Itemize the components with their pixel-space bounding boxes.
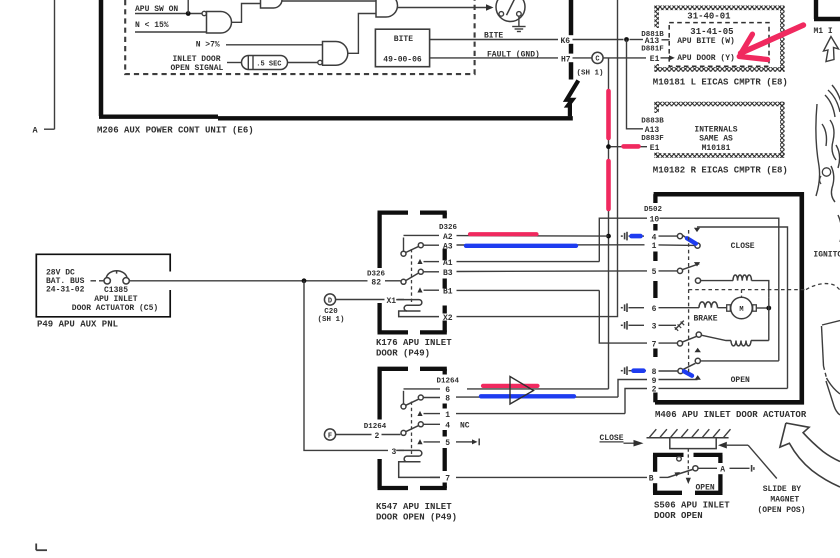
off-sheet connector C (SH 1) xyxy=(577,52,604,77)
svg-text:M1 I: M1 I xyxy=(814,27,833,36)
svg-text:3: 3 xyxy=(652,323,657,332)
box M1 corner top right xyxy=(814,0,840,36)
svg-text:NC: NC xyxy=(460,422,470,431)
K176 contact pole A2 xyxy=(401,238,419,257)
and-gate G1B (clipped at top) xyxy=(261,0,283,8)
highlight red on K547 pin 6 wire xyxy=(483,384,538,388)
K547 pin 7 wire to S506 B xyxy=(430,475,647,484)
junction dot main feed xyxy=(302,278,307,283)
svg-text:C1385: C1385 xyxy=(104,286,128,295)
label K176 APU INLET DOOR (P49) xyxy=(376,338,452,358)
box M406 APU INLET DOOR ACTUATOR xyxy=(654,192,804,405)
M406 switch mechanical link dashed xyxy=(688,230,690,375)
circuit breaker C1385 APU INLET DOOR ACTUATOR (C5) xyxy=(72,270,158,313)
svg-text:N >7%: N >7% xyxy=(196,40,220,49)
svg-text:A: A xyxy=(720,466,725,475)
signal INLET DOOR OPEN SIGNAL xyxy=(171,55,242,73)
svg-text:SAME AS: SAME AS xyxy=(699,135,733,144)
S506 magnet link dashed with OPEN arrow xyxy=(686,449,715,493)
svg-text:C20: C20 xyxy=(324,308,338,316)
label K547 APU INLET DOOR OPEN (P49) xyxy=(376,502,457,522)
label 31-40-01 xyxy=(687,11,731,21)
box S506 APU INLET DOOR OPEN xyxy=(653,455,723,493)
figure corner mark bottom left xyxy=(36,544,47,551)
annotation triangle on K547 wires xyxy=(510,377,534,405)
svg-text:INTERNALS: INTERNALS xyxy=(694,125,737,134)
svg-text:DOOR OPEN: DOOR OPEN xyxy=(654,511,703,521)
label IGNITO cut at edge xyxy=(813,251,840,260)
svg-text:APU SW ON: APU SW ON xyxy=(135,5,178,14)
svg-text:FAULT (GND): FAULT (GND) xyxy=(487,50,540,59)
wire BITE K6 to L EICAS pin A13 xyxy=(430,32,643,47)
K176 pin B3 wire to D502 pin 5 xyxy=(423,269,647,278)
highlight blue on K547 pin 8 wire xyxy=(481,394,574,398)
K176 contact B3 xyxy=(418,269,423,274)
and-gate G1 with inverted input xyxy=(202,11,232,33)
label D502 xyxy=(644,206,663,214)
label M10181 L EICAS CMPTR (E8) xyxy=(653,77,788,87)
highlight red pill on E1 R EICAS xyxy=(624,144,639,149)
svg-text:B1: B1 xyxy=(443,287,453,296)
D502 pin 10 wire into box xyxy=(650,216,779,361)
pin D881F label xyxy=(641,46,664,54)
wire FAULT (GND) H7 to connector C xyxy=(430,50,592,64)
K176 mechanical link dashed xyxy=(411,249,413,303)
D502 pin 8 termination and switch xyxy=(621,363,696,377)
pin A13 D881B xyxy=(641,31,669,46)
svg-text:D1264: D1264 xyxy=(364,423,387,431)
svg-text:DOOR ACTUATOR (C5): DOOR ACTUATOR (C5) xyxy=(72,304,158,313)
highlight blue on A3 wire xyxy=(466,244,576,248)
svg-text:D502: D502 xyxy=(644,206,663,214)
box M10181 L EICAS CMPTR (E8) hatched border xyxy=(654,6,784,72)
svg-text:X2: X2 xyxy=(443,314,453,323)
svg-text:X1: X1 xyxy=(387,297,397,306)
svg-text:D883F: D883F xyxy=(641,135,664,143)
label P49 APU AUX PNL xyxy=(37,320,118,330)
label INTERNALS SAME AS M10181 xyxy=(694,125,737,153)
svg-text:INLET DOOR: INLET DOOR xyxy=(173,55,221,64)
M406 motor upper winding xyxy=(695,275,768,297)
D502 pin 7 wire and switch xyxy=(652,336,697,349)
off-sheet connector D C20 (SH 1) xyxy=(318,294,345,324)
K547 pin 6 wire from fault riser xyxy=(404,377,460,395)
label 31-41-05 xyxy=(690,27,733,37)
wire G3 output with arrow to BITE switch xyxy=(398,4,494,10)
junction dot D502 pin 4 row xyxy=(606,234,611,239)
svg-text:82: 82 xyxy=(371,278,381,287)
svg-text:A1: A1 xyxy=(443,259,453,268)
svg-text:BITE: BITE xyxy=(484,32,503,41)
sketch small arrow up xyxy=(824,37,839,62)
box BITE 49-00-06 xyxy=(375,29,429,66)
svg-text:M10181: M10181 xyxy=(702,144,731,153)
S506 pin A wire with terminator xyxy=(698,465,754,475)
mechanical link to door dashed xyxy=(689,284,840,297)
relay box K547 APU INLET DOOR OPEN (P49) xyxy=(378,369,447,488)
label CLOSE with arrow xyxy=(600,434,644,447)
svg-text:OPEN: OPEN xyxy=(731,376,750,385)
sketch duct curves upper xyxy=(816,85,840,202)
off-sheet connector F xyxy=(324,429,335,440)
svg-text:IGNITO: IGNITO xyxy=(813,251,840,260)
svg-text:APU BITE (W): APU BITE (W) xyxy=(677,37,735,46)
label 28V DC BAT. BUS 24-31-02 xyxy=(46,269,85,295)
highlight blue on close switch arm xyxy=(687,238,696,243)
wire G1 output to G1B xyxy=(232,4,261,23)
D502 pin 3 termination with chassis ground xyxy=(621,321,684,332)
svg-text:P49 APU AUX PNL: P49 APU AUX PNL xyxy=(37,320,118,330)
svg-text:1: 1 xyxy=(445,411,450,420)
svg-text:D1264: D1264 xyxy=(437,377,460,385)
svg-text:N < 15%: N < 15% xyxy=(135,21,169,30)
K547 contact 4 NC xyxy=(418,422,470,431)
svg-text:D: D xyxy=(328,297,332,305)
pin D883F and E1 of R EICAS xyxy=(611,135,664,153)
svg-text:4: 4 xyxy=(445,422,450,431)
D502 pin 9 wire to open contact arrow xyxy=(652,375,701,386)
K176 pin X2 label xyxy=(443,314,453,323)
svg-text:OPEN SIGNAL: OPEN SIGNAL xyxy=(171,64,224,73)
svg-text:S506 APU INLET: S506 APU INLET xyxy=(654,501,730,511)
and-gate G2 with inverted input xyxy=(318,42,348,66)
wire F to K547 pin 2 xyxy=(336,423,401,441)
dashed sub-box 31-41-05 xyxy=(669,23,769,67)
K176 pin A2 wire to D502 pin 4 junction xyxy=(404,224,609,242)
M406 motor xyxy=(727,297,769,319)
svg-text:APU DOOR (Y): APU DOOR (Y) xyxy=(677,54,735,63)
wire K6 branch down to R EICAS A13 xyxy=(627,40,665,135)
svg-text:CLOSE: CLOSE xyxy=(731,242,755,251)
svg-text:6: 6 xyxy=(652,305,657,314)
signal APU SW ON xyxy=(135,5,202,14)
svg-text:DOOR (P49): DOOR (P49) xyxy=(376,349,430,359)
sketch duct curves lower xyxy=(822,215,840,415)
D502 pin 1 wire xyxy=(652,242,695,251)
label CLOSE xyxy=(731,242,755,251)
svg-text:7: 7 xyxy=(445,475,450,484)
svg-text:K176 APU INLET: K176 APU INLET xyxy=(376,338,452,348)
K547 contact pole 6-8 xyxy=(401,391,419,409)
svg-text:3: 3 xyxy=(392,448,397,457)
dashed logic sub-box in M206 xyxy=(125,0,474,74)
svg-text:24-31-02: 24-31-02 xyxy=(46,286,85,295)
svg-text:B: B xyxy=(649,474,654,483)
svg-text:D883B: D883B xyxy=(641,117,664,125)
signal N < 15% xyxy=(135,21,207,32)
wire K176 X2 riser to sheet top xyxy=(457,0,618,317)
highlight blue pill on pin 4 xyxy=(632,234,641,239)
label SLIDE BY MAGNET (OPEN POS) xyxy=(758,485,806,515)
highlight red on A2 wire xyxy=(470,232,537,236)
svg-text:A3: A3 xyxy=(443,243,453,252)
svg-text:D326: D326 xyxy=(439,224,458,232)
svg-text:.5 SEC: .5 SEC xyxy=(256,61,281,69)
K547 coil xyxy=(396,450,440,477)
box M10182 R EICAS CMPTR (E8) hatched border xyxy=(654,102,784,158)
S506 pin B label xyxy=(649,474,654,483)
svg-text:MAGNET: MAGNET xyxy=(770,495,799,504)
label M10182 R EICAS CMPTR (E8) xyxy=(653,165,788,175)
svg-text:SLIDE BY: SLIDE BY xyxy=(763,485,802,494)
svg-text:M406 APU INLET DOOR ACTUATOR: M406 APU INLET DOOR ACTUATOR xyxy=(655,410,807,420)
D502 pin 5 wire and switch xyxy=(652,262,701,277)
svg-text:5: 5 xyxy=(445,439,450,448)
svg-text:31-40-01: 31-40-01 xyxy=(687,11,731,21)
svg-text:OPEN: OPEN xyxy=(696,483,715,492)
svg-text:(OPEN POS): (OPEN POS) xyxy=(758,506,806,515)
svg-text:D326: D326 xyxy=(367,271,386,279)
K176 contact A3 xyxy=(418,243,423,248)
svg-text:APU INLET: APU INLET xyxy=(94,295,137,304)
and-gate G3 (clipped at top) xyxy=(376,0,398,17)
slide rail hatching xyxy=(647,429,731,438)
svg-text:8: 8 xyxy=(445,395,450,404)
box M206 AUX POWER CONT UNIT (E6) outline with break symbol xyxy=(99,0,578,118)
BITE test switch with ground xyxy=(496,0,526,32)
wire breaker feed to K176 pin 82 xyxy=(129,271,400,288)
M406 close switch xyxy=(677,228,700,249)
junction on APU SW ON line xyxy=(186,0,191,16)
K547 mechanical link dashed xyxy=(411,402,413,455)
wire G1B output to G3 xyxy=(282,0,376,2)
label APU DOOR (Y) xyxy=(677,54,735,63)
pointer arrow slide by magnet xyxy=(718,442,777,479)
wire C to E1 of L EICAS with arrow xyxy=(603,55,675,64)
wire fault ground riser from C down to K547 pin 6 xyxy=(467,58,609,389)
annotation pink arrow to APU DOOR (Y) xyxy=(739,25,803,59)
svg-text:K547 APU INLET: K547 APU INLET xyxy=(376,502,452,512)
M406 motor lower winding xyxy=(696,332,769,346)
svg-text:5: 5 xyxy=(652,268,657,277)
connector D502 dashed edge xyxy=(653,194,657,402)
svg-text:K6: K6 xyxy=(561,37,571,46)
label S506 APU INLET DOOR OPEN xyxy=(654,501,730,521)
K547 pin 1 wire to D502 pin 2 xyxy=(417,389,647,420)
svg-text:2: 2 xyxy=(375,432,380,441)
svg-text:31-41-05: 31-41-05 xyxy=(690,27,733,37)
junction dot K6 branch xyxy=(624,37,629,42)
wire feed down to K547 pin 3 xyxy=(304,281,404,457)
svg-text:F: F xyxy=(328,432,332,440)
svg-text:D881F: D881F xyxy=(641,46,664,54)
svg-text:A: A xyxy=(33,126,39,136)
box P49 APU AUX PNL xyxy=(36,254,170,316)
wire G2 output to G3 xyxy=(348,14,376,54)
time delay element .5 SEC xyxy=(242,56,318,70)
open direction contact arrow upper xyxy=(695,348,701,353)
sketch big arrow to actuator xyxy=(780,423,840,487)
K176 pin A3 wire to D502 pin 1 xyxy=(423,243,644,252)
svg-text:8: 8 xyxy=(652,368,657,377)
wire D to K176 coil X1 xyxy=(336,297,404,306)
svg-text:BITE: BITE xyxy=(394,35,413,44)
K176 contact pole 82-B3 xyxy=(401,273,419,284)
svg-text:H7: H7 xyxy=(561,56,571,65)
svg-text:A2: A2 xyxy=(443,233,453,242)
label OPEN in M406 xyxy=(731,376,750,385)
K547 contact pole 2-4 xyxy=(401,426,419,436)
svg-text:M10181 L EICAS CMPTR (E8): M10181 L EICAS CMPTR (E8) xyxy=(653,77,788,87)
svg-text:C: C xyxy=(595,56,599,64)
svg-text:49-00-06: 49-00-06 xyxy=(383,56,422,65)
svg-text:DOOR OPEN (P49): DOOR OPEN (P49) xyxy=(376,512,457,522)
S506 switch arm and contacts xyxy=(660,457,699,478)
svg-text:A13: A13 xyxy=(645,126,660,135)
junction dot E1 R EICAS xyxy=(606,144,611,149)
highlight blue on open switch arm xyxy=(684,371,692,375)
relay box K176 APU INLET DOOR (P49) xyxy=(378,213,447,333)
highlight red riser segment upper xyxy=(606,91,611,138)
svg-text:E1: E1 xyxy=(650,144,660,153)
svg-text:7: 7 xyxy=(652,340,657,349)
svg-text:1: 1 xyxy=(652,242,657,251)
wire close contact from pin 2 riser xyxy=(697,227,788,388)
D502 pin 4 termination and wire xyxy=(621,232,678,243)
K547 pin 8 wire to D502 pin 9 xyxy=(423,380,647,404)
M406 brake coil on pin 6 xyxy=(621,302,727,324)
svg-text:4: 4 xyxy=(652,233,657,242)
svg-text:M10182 R EICAS CMPTR (E8): M10182 R EICAS CMPTR (E8) xyxy=(653,165,788,175)
svg-text:2: 2 xyxy=(652,386,657,395)
K547 contact 8 xyxy=(418,395,423,400)
svg-text:M: M xyxy=(739,306,743,314)
signal N > 7% xyxy=(196,40,323,49)
magnet slide rectangle xyxy=(670,438,716,449)
svg-text:B3: B3 xyxy=(443,269,453,278)
M406 open switch contact to pin 10 riser xyxy=(695,358,779,363)
svg-text:9: 9 xyxy=(652,377,657,386)
D502 pin 2 wire to close contact riser xyxy=(652,386,788,395)
highlight blue pill on pin 8 xyxy=(634,368,644,373)
K176 pin B1 wire to D502 pin 7 xyxy=(417,287,647,343)
svg-text:M206 AUX POWER CONT UNIT (E6): M206 AUX POWER CONT UNIT (E6) xyxy=(97,126,254,136)
highlight red riser segment lower xyxy=(606,161,611,209)
svg-text:E1: E1 xyxy=(650,55,660,64)
K176 coil xyxy=(396,300,439,317)
label M206 xyxy=(97,126,254,136)
svg-text:(SH 1): (SH 1) xyxy=(318,316,345,324)
junction dot motor to winding riser xyxy=(766,297,771,340)
K547 pin 5 wire with terminator xyxy=(417,439,479,449)
node A off-sheet wire xyxy=(33,0,55,136)
svg-text:BRAKE: BRAKE xyxy=(694,314,718,323)
K176 pin A1 wire to D502 pin 10 xyxy=(417,218,647,268)
label APU BITE (W) xyxy=(677,37,735,46)
label M406 APU INLET DOOR ACTUATOR xyxy=(655,410,807,420)
svg-text:(SH 1): (SH 1) xyxy=(577,69,604,77)
svg-text:10: 10 xyxy=(650,216,660,225)
